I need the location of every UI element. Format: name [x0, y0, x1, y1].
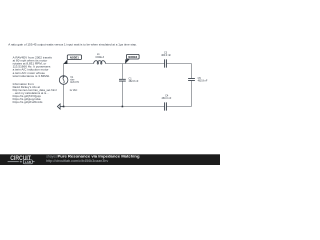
svg-text:118.0 Hz: 118.0 Hz — [70, 82, 80, 84]
label C4 — [161, 94, 171, 100]
inductor L1 — [94, 61, 106, 64]
label C1 — [129, 78, 139, 84]
svg-text:total inductance is 3.84MH.: total inductance is 3.84MH. — [13, 74, 50, 78]
CircuitLab logo — [8, 155, 35, 164]
svg-text:3.84E-3: 3.84E-3 — [95, 56, 104, 59]
capacitor C3 (top rail) — [165, 59, 167, 67]
node flag NODE1 — [63, 55, 81, 64]
annotation block 2 — [13, 82, 57, 104]
junction node at bottom left (ground) — [63, 106, 65, 108]
capacitor C4 (bottom rail) — [165, 102, 167, 110]
svg-text:A ratio gain of 159.45 output: A ratio gain of 159.45 output watts vers… — [8, 42, 137, 46]
wire: right vertical — [191, 64, 193, 107]
label C3 — [161, 52, 171, 58]
svg-text:460.0 nF: 460.0 nF — [161, 97, 171, 100]
wire: bottom rail — [64, 106, 192, 108]
voltage source V1 — [59, 76, 68, 85]
svg-text:482.8 nF: 482.8 nF — [129, 80, 139, 83]
wire: top rail left segment — [64, 63, 94, 65]
label C5 — [198, 77, 208, 83]
wire: middle vertical branch — [121, 64, 123, 107]
svg-text:http://circuitlab.com/c/b456k3: http://circuitlab.com/c/b456k3caan3hv — [46, 159, 108, 163]
wire: left vertical (V1 branch) — [63, 64, 65, 107]
wire: top rail middle segment — [105, 63, 164, 65]
node flag NODE2 — [125, 54, 139, 64]
svg-text:Pure Resonance via Impedance M: Pure Resonance via Impedance Matching — [58, 153, 141, 158]
svg-text:LAB: LAB — [25, 160, 32, 164]
capacitor C1 (middle branch) — [119, 79, 126, 81]
capacitor C5 (right vertical) — [188, 79, 195, 81]
ground — [57, 104, 63, 109]
annotation block 1 — [13, 55, 53, 78]
svg-text:482.8 nF: 482.8 nF — [198, 79, 208, 82]
wire: top rail right segment — [167, 63, 192, 65]
junction node at bottom middle — [122, 106, 124, 108]
svg-text:1u VAC: 1u VAC — [70, 89, 78, 92]
svg-text:460.0 nF: 460.0 nF — [161, 54, 171, 57]
label L1 — [95, 53, 104, 59]
footer bar — [0, 154, 220, 165]
svg-text:NODE2: NODE2 — [128, 55, 137, 59]
svg-text:https://is.gd/pKvWmzds: https://is.gd/pKvWmzds — [13, 100, 43, 104]
svg-text:NODE1: NODE1 — [70, 55, 79, 59]
label V1 — [70, 76, 81, 92]
